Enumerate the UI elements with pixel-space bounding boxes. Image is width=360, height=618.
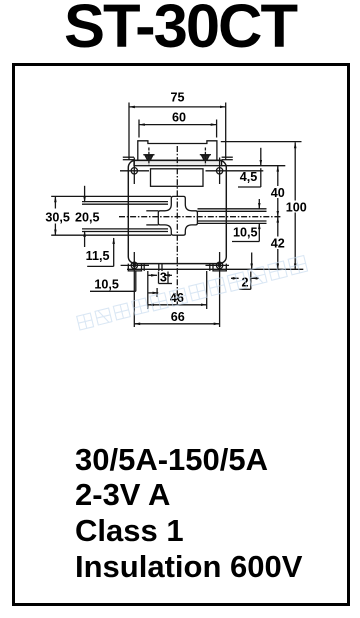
screw left <box>143 148 154 166</box>
hole top-left <box>120 158 149 185</box>
dim 11,5 leader <box>87 238 114 266</box>
hole top-right <box>206 158 264 185</box>
right foot <box>213 264 226 271</box>
dim 75 dimension line <box>129 103 226 161</box>
dim 66 dimension line <box>134 323 219 325</box>
screw right <box>200 148 211 166</box>
left foot <box>128 264 141 271</box>
band top extension right <box>222 165 286 167</box>
svg-text:60: 60 <box>172 111 186 125</box>
svg-text:75: 75 <box>170 91 184 105</box>
inner slot lines lower left pair <box>82 229 168 232</box>
dim 3 bracket <box>148 264 172 284</box>
baseline ground line <box>127 268 303 270</box>
right slot lines upper pair <box>198 209 267 212</box>
band end stub right <box>222 157 233 160</box>
top plate band <box>134 160 222 165</box>
inner slot lines upper left pair <box>82 202 168 205</box>
dim 100 dimension line <box>294 142 296 269</box>
dim 46 dimension line <box>148 271 207 309</box>
dim 42 dimension line <box>277 217 279 270</box>
terminal block rectangle <box>151 169 204 187</box>
leader arrow to baseline <box>251 253 253 270</box>
svg-text:100: 100 <box>286 200 307 214</box>
cross top edge extension left <box>51 195 171 197</box>
cross bottom edge extension left <box>51 234 171 236</box>
center cross hole <box>158 196 197 235</box>
dim 40 dimension line <box>277 166 279 217</box>
dim 60 dimension line <box>139 120 217 138</box>
dim 4,5 leader <box>238 148 261 187</box>
dim 10,5 left leader <box>90 271 136 291</box>
title ST-30CT <box>0 0 360 62</box>
dim 20,5 dimension line <box>84 186 86 247</box>
svg-text:11,5: 11,5 <box>86 249 110 263</box>
dim 30,5 dimension line <box>54 196 56 235</box>
horizontal centerline <box>119 216 281 218</box>
band end stub left <box>123 157 134 160</box>
hole bottom-right <box>206 252 230 327</box>
dimension labels <box>45 91 306 324</box>
dim 10,5 right leader <box>232 199 259 242</box>
vertical centerline <box>176 146 178 305</box>
svg-text:66: 66 <box>171 310 185 324</box>
svg-text:3: 3 <box>160 270 167 284</box>
svg-text:40: 40 <box>271 186 285 200</box>
dim 2 bracket <box>231 272 259 290</box>
right slot lines lower pair <box>198 221 267 223</box>
body outline <box>128 160 226 263</box>
watermark <box>75 255 308 330</box>
foot inner slot left <box>143 264 145 271</box>
svg-text:4,5: 4,5 <box>240 170 258 184</box>
dim 46 upper arrow stub <box>149 288 159 297</box>
svg-text:10,5: 10,5 <box>94 277 119 291</box>
spec text block <box>75 442 302 585</box>
foot inner slot right <box>209 264 211 271</box>
svg-text:10,5: 10,5 <box>233 226 258 240</box>
mounting bracket <box>138 141 217 166</box>
arm stub lines left <box>146 211 158 225</box>
right extension line top <box>221 141 302 143</box>
hole bottom-left <box>121 252 149 327</box>
svg-text:20,5: 20,5 <box>75 210 100 224</box>
svg-text:30,5: 30,5 <box>45 210 70 224</box>
svg-text:42: 42 <box>271 237 285 251</box>
